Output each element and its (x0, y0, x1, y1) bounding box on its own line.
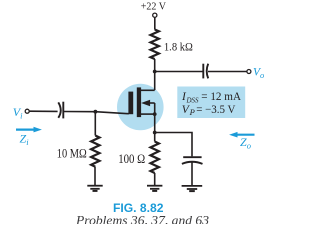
capacitor C2 (202, 64, 204, 79)
transistor Q1 body circle (117, 84, 164, 131)
ground CS (182, 185, 203, 187)
wire source to RS (154, 114, 156, 141)
wire CS to ground (191, 162, 193, 185)
svg-text:= −3.5 V: = −3.5 V (196, 104, 236, 116)
wire drain node to C2 (155, 71, 204, 73)
ground RS (147, 185, 162, 187)
svg-text:1.8 kΩ: 1.8 kΩ (164, 39, 193, 53)
resistor RS 100 (151, 142, 159, 174)
impedance Zi arrow (16, 129, 38, 131)
wire RD to drain (154, 59, 156, 90)
ground RG (87, 185, 102, 187)
terminal +22V (153, 13, 157, 17)
svg-text:+22 V: +22 V (141, 1, 167, 12)
node drain junction (153, 70, 157, 74)
svg-text:100 Ω: 100 Ω (118, 152, 145, 166)
svg-text:= 12 mA: = 12 mA (201, 91, 241, 103)
transistor substrate lead with arrow (148, 102, 155, 104)
terminal Vo (247, 70, 251, 74)
wire gate node to RG (94, 112, 96, 136)
wire C1 to gate (63, 112, 129, 114)
wire C2 to Vo (208, 71, 247, 73)
capacitor C1 (58, 102, 60, 117)
node bypass junction (153, 131, 157, 135)
info box (177, 87, 245, 119)
resistor RD 1.8k (151, 30, 159, 60)
svg-text:P: P (189, 107, 195, 117)
transistor drain lead (141, 89, 155, 91)
transistor channel bar (137, 87, 141, 117)
transistor gate bar (128, 92, 133, 115)
transistor source lead (141, 113, 155, 115)
node gate junction (94, 110, 98, 114)
wire supply to RD (154, 18, 156, 30)
impedance Zo arrow (234, 134, 255, 136)
terminal Vi (25, 109, 29, 113)
wire RS to ground (154, 173, 156, 186)
capacitor CS (183, 156, 201, 158)
svg-text:10 MΩ: 10 MΩ (57, 146, 87, 160)
wire RG to ground (94, 167, 96, 186)
wire to CS (155, 133, 192, 157)
svg-text:Problems 36, 37, and 63: Problems 36, 37, and 63 (75, 213, 210, 224)
wire Vi to C1 (29, 110, 57, 112)
resistor RG 10M (91, 136, 99, 167)
node source junction (153, 112, 157, 116)
